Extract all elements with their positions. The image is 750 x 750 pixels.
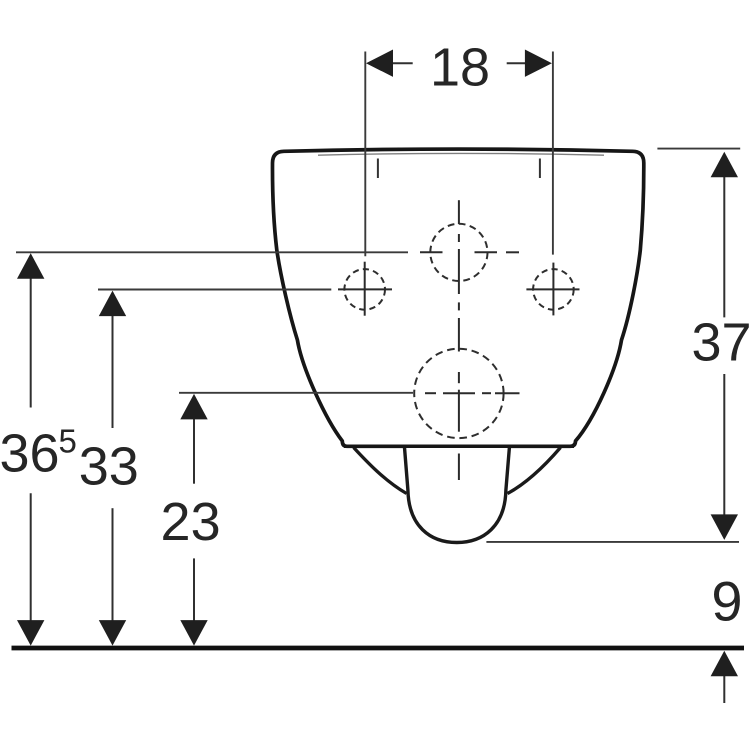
- svg-text:37: 37: [691, 313, 750, 373]
- svg-text:36: 36: [0, 423, 60, 483]
- svg-text:18: 18: [430, 38, 490, 98]
- svg-text:33: 33: [79, 437, 139, 497]
- svg-text:5: 5: [59, 423, 77, 460]
- svg-text:9: 9: [711, 570, 742, 633]
- svg-text:23: 23: [161, 492, 221, 552]
